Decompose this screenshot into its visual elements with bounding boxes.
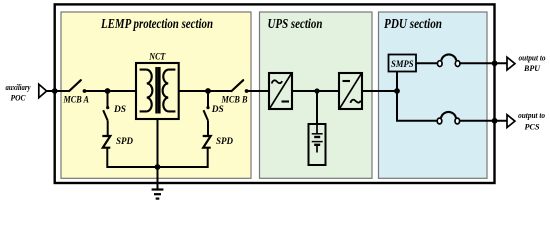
PDU section box — [379, 12, 488, 178]
disconnect switch DS (left) — [103, 91, 126, 136]
inverter U2 (DC/AC) — [339, 73, 362, 109]
right winding — [163, 70, 176, 112]
breaker MCB A — [63, 80, 108, 105]
ground — [152, 190, 164, 199]
rectifier U1 (AC/DC) — [269, 73, 292, 109]
svg-text:LEMP protection section: LEMP protection section — [100, 16, 213, 31]
transformer NCT — [136, 52, 179, 120]
wire right SPD to ground bus — [207, 148, 209, 166]
node B: junction right DS branch — [205, 88, 211, 94]
node C: PDU junction — [394, 88, 400, 94]
wire NCT bottom to ground — [155, 119, 161, 190]
wire node C to SMPS — [396, 72, 398, 92]
svg-text:DS: DS — [211, 104, 224, 115]
SMPS — [389, 55, 417, 72]
output to PCS label — [518, 111, 545, 132]
breaker F2 (PCS output) — [437, 112, 459, 124]
svg-text:POC: POC — [11, 93, 26, 103]
svg-text:SMPS: SMPS — [391, 60, 414, 70]
wire node C down and to breaker F2 — [397, 91, 507, 121]
UPS section box — [260, 12, 373, 178]
wire node B to MCB B — [208, 90, 232, 92]
LEMP protection section box — [61, 12, 251, 178]
SPD (right) — [203, 136, 233, 148]
svg-text:SPD: SPD — [216, 136, 233, 147]
junction at frame (PCS) — [492, 118, 498, 124]
wire breaker F1 to frame — [460, 60, 507, 66]
svg-text:auxiliary: auxiliary — [6, 82, 31, 92]
svg-text:UPS section: UPS section — [268, 16, 323, 31]
wire input to MCB A with junction at frame — [47, 88, 70, 94]
outer frame — [55, 4, 495, 183]
svg-text:SPD: SPD — [116, 136, 133, 147]
disconnect switch DS (right) — [204, 91, 224, 136]
wire MCB B to rectifier — [247, 90, 269, 92]
wire left SPD to ground bus — [106, 148, 108, 166]
output arrow PCS — [507, 115, 515, 128]
svg-text:DS: DS — [113, 104, 126, 115]
svg-text:MCB B: MCB B — [221, 95, 248, 106]
wire rectifier to inverter with battery junction — [292, 88, 339, 93]
wire inverter to PDU node — [362, 90, 397, 92]
left winding — [140, 70, 153, 112]
core bars — [155, 67, 158, 114]
breaker MCB B — [221, 80, 249, 105]
svg-text:NCT: NCT — [148, 52, 166, 63]
wire SMPS to breaker F1 — [416, 62, 437, 64]
svg-text:PDU section: PDU section — [384, 16, 442, 31]
svg-text:BPU: BPU — [523, 64, 541, 73]
node A: junction left DS branch — [105, 88, 136, 94]
input arrow — [39, 84, 47, 98]
svg-text:MCB A: MCB A — [63, 95, 89, 106]
wire NCT to node B — [179, 90, 208, 92]
output arrow BPU — [507, 57, 515, 70]
ground bus wire — [107, 166, 207, 167]
output to BPU label — [519, 53, 546, 73]
battery B1 — [309, 91, 326, 165]
svg-text:PCS: PCS — [525, 123, 540, 132]
auxiliary POC label — [6, 82, 31, 103]
breaker F1 (BPU output) — [438, 54, 460, 66]
svg-text:output to: output to — [518, 111, 545, 120]
svg-text:output to: output to — [519, 53, 546, 62]
SPD (left) — [102, 136, 133, 148]
